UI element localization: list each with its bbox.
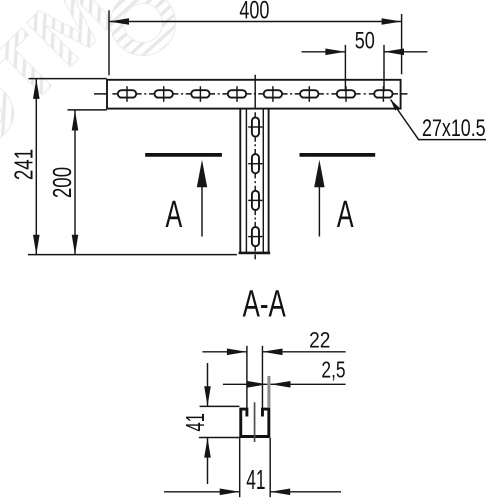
bar slot 7 (27x10.5) bbox=[337, 90, 355, 97]
section cut thick line right bbox=[300, 153, 376, 157]
dim 400: extension line left bbox=[108, 10, 110, 75]
dim 41 bottom: arrow pointing left bbox=[270, 489, 290, 496]
dim 200: dimension line bbox=[74, 111, 76, 255]
dim 200: top extension line (bar bottom) bbox=[68, 109, 107, 111]
dim 50: dimension line left part bbox=[302, 51, 346, 53]
section arrow right (A) bbox=[318, 183, 320, 237]
member slot 3 bbox=[252, 191, 259, 210]
svg-text:A-A: A-A bbox=[243, 283, 286, 325]
dim 41 left: dimension line upper bbox=[207, 363, 209, 406]
dim 22: arrow pointing right bbox=[227, 349, 247, 356]
dim 241: arrow up bbox=[33, 79, 40, 99]
dim 41 left: arrow pointing up bbox=[204, 438, 211, 458]
dim 400: arrow left bbox=[109, 18, 129, 25]
bar slot 2 (27x10.5) bbox=[155, 90, 173, 97]
member slot 2 bbox=[252, 154, 259, 173]
dim 400: dimension line bbox=[109, 21, 402, 23]
dim 400: arrow right bbox=[382, 18, 402, 25]
vertical member inner fold line left bbox=[245, 109, 247, 253]
vertical member outer wall left bbox=[239, 109, 241, 253]
gray center line inside channel bbox=[254, 402, 256, 442]
dim 200: arrow up bbox=[72, 111, 79, 131]
bar slot 1 (27x10.5) bbox=[118, 90, 136, 97]
bar slot 5 (27x10.5) bbox=[264, 90, 282, 97]
dim 241: arrow down bbox=[33, 235, 40, 255]
svg-text:A: A bbox=[165, 193, 182, 235]
dim 50: arrow pointing right at left ext bbox=[325, 49, 345, 56]
dim 41 bottom: dimension line left part bbox=[164, 491, 240, 493]
section cut thick line left bbox=[145, 153, 222, 157]
dim 2,5: arrow pointing right bbox=[247, 381, 267, 388]
vertical member centerline (dash-dot) bbox=[254, 75, 256, 260]
bar slot 6 (27x10.5) bbox=[300, 90, 318, 97]
dim 400: extension line right bbox=[401, 14, 403, 74]
svg-text:A: A bbox=[337, 193, 354, 235]
section arrow left (A) bbox=[201, 183, 203, 237]
dim 22: extension line left (lip) bbox=[246, 346, 248, 408]
shared bottom extension line (member bottom) bbox=[28, 254, 237, 256]
dim 41 bottom: extension line right bbox=[269, 438, 271, 497]
bar slot 8 (27x10.5) bbox=[374, 90, 392, 97]
vertical member outer wall right bbox=[268, 109, 270, 253]
dim 41 bottom: extension line left bbox=[239, 438, 241, 497]
dim 50: arrow pointing left at right ext bbox=[384, 49, 404, 56]
member slot 4 bbox=[252, 227, 259, 246]
dim 22: dimension line left part bbox=[202, 351, 247, 353]
watermark ETM logo (faint, diagonal) bbox=[0, 0, 176, 169]
bar slot 4 (27x10.5) bbox=[228, 90, 246, 97]
dim 22: dimension line right part bbox=[262, 351, 345, 353]
gray extended wall (2.5 thk) bbox=[267, 376, 270, 408]
svg-text:27x10.5: 27x10.5 bbox=[422, 114, 486, 141]
dim 41 left: bottom extension line bbox=[199, 437, 240, 439]
dim 41 left: top extension line bbox=[200, 405, 240, 407]
vertical member bottom edge bbox=[239, 252, 271, 255]
dim 41 bottom: dimension line right part bbox=[270, 491, 341, 493]
top bar outline (400 wide plate) bbox=[107, 80, 401, 109]
svg-text:241: 241 bbox=[8, 149, 38, 180]
member slot 1 bbox=[252, 117, 259, 136]
dim 41 bottom: arrow pointing right bbox=[220, 489, 240, 496]
channel profile A-A (thick) bbox=[241, 409, 269, 436]
svg-text:41: 41 bbox=[246, 464, 265, 495]
svg-text:41: 41 bbox=[180, 413, 210, 431]
dim 50: extension line left (slot 7 center) bbox=[344, 45, 346, 92]
dim 22: arrow pointing left bbox=[262, 349, 282, 356]
dim 41 left: dimension line lower bbox=[207, 438, 209, 484]
svg-text:2,5: 2,5 bbox=[321, 357, 345, 383]
dim 2,5: dimension line right part bbox=[271, 383, 346, 385]
dim 200: arrow down bbox=[72, 235, 79, 255]
dim 41 left: arrow pointing down bbox=[204, 386, 211, 406]
dim 22: extension line right (lip) bbox=[261, 346, 263, 408]
dim 50: dimension line right part bbox=[384, 51, 427, 53]
horizontal bar centerline (dash-dot) bbox=[94, 93, 408, 95]
dim 241: top extension line (bar top) bbox=[29, 78, 107, 80]
leader line for 27x10.5 slot callout bbox=[391, 100, 486, 140]
svg-text:22: 22 bbox=[309, 328, 330, 353]
bar slot 3 (27x10.5) bbox=[191, 90, 209, 97]
dim 2,5: dimension line left part bbox=[223, 383, 267, 385]
svg-text:200: 200 bbox=[47, 167, 77, 198]
vertical member inner fold line right bbox=[262, 109, 264, 253]
dim 2,5: arrow pointing left bbox=[271, 381, 291, 388]
leader arrowhead at slot 8 bbox=[390, 99, 399, 110]
dim 50: extension line right (slot 8 center) bbox=[383, 45, 385, 92]
svg-text:400: 400 bbox=[239, 0, 269, 24]
svg-text:50: 50 bbox=[355, 27, 375, 54]
dim 241: dimension line bbox=[35, 79, 37, 255]
